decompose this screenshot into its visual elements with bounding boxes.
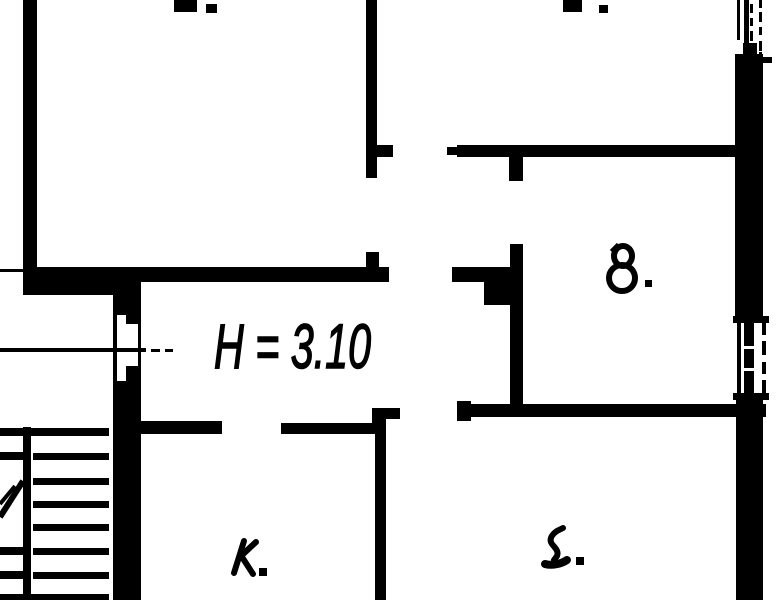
- wall B room stub horizontal: [452, 267, 510, 282]
- wall tick right side: [763, 57, 772, 63]
- window shaft line 1 top right: [737, 0, 740, 40]
- text L label top-right bottom stroke: [563, 0, 582, 12]
- stair tread 6 left: [0, 547, 23, 555]
- wall K S divider top cap: [372, 408, 400, 419]
- wall door jamb tick up at hall wall right end: [366, 252, 379, 268]
- wall B room left vertical: [510, 244, 523, 414]
- wall hall horizontal thick left portion: [23, 267, 138, 295]
- wall hall horizontal main: [23, 267, 389, 282]
- wall tick right on top-left room wall: [377, 145, 393, 157]
- stair stringer vertical: [23, 427, 31, 600]
- wall K top right segment: [281, 423, 373, 434]
- wall top horizontal between L room and B: [457, 145, 738, 157]
- wall door jamb below top wall: [509, 157, 523, 181]
- wall left exterior: [23, 0, 37, 295]
- wall corridor vertical upper: [113, 282, 141, 315]
- stair tread 6 right: [33, 548, 109, 555]
- wall K top left stub: [141, 421, 222, 434]
- wall top horizontal left end dash: [447, 147, 457, 155]
- window right wall right dashed line: [762, 323, 766, 335]
- text L label top-left bottom stroke: [174, 0, 197, 12]
- wall S room top left end cap: [457, 401, 471, 421]
- window entrance door right edge line: [138, 315, 141, 381]
- wire window sill dimension line: [0, 348, 146, 352]
- wall right exterior upper: [735, 54, 763, 317]
- stair tread 4: [33, 501, 109, 508]
- window shaft dashed line: [759, 0, 762, 8]
- window right wall top band: [733, 316, 769, 323]
- stair tread 2 left: [0, 452, 23, 460]
- stair tread 3: [33, 478, 109, 485]
- wall S room top horizontal: [457, 404, 766, 417]
- text L label top-right period: [599, 5, 608, 13]
- stair tread 5: [33, 524, 109, 531]
- text L label top-left period: [206, 4, 217, 13]
- wall B room door hinge blob: [484, 277, 522, 305]
- window right wall middle band: [744, 323, 754, 393]
- stair tread 7 right: [33, 572, 109, 579]
- window entrance door bottom inner block: [126, 366, 141, 381]
- window entrance door top inner block: [126, 314, 141, 324]
- stair tread 2 right: [33, 453, 109, 460]
- wall right exterior upper middle part: [743, 43, 757, 55]
- stair tread 7 left: [0, 571, 23, 579]
- window right wall left line: [737, 323, 741, 393]
- wall corridor vertical lower: [113, 381, 141, 600]
- wire dimension line left of hall wall: [0, 269, 23, 272]
- wall K top right jamb: [372, 415, 386, 434]
- wall K S divider vertical: [375, 408, 386, 600]
- wire dimension line dash 2: [165, 349, 173, 352]
- wall right exterior lower: [736, 400, 763, 600]
- stair tread 1: [0, 428, 109, 436]
- window right wall bottom band: [733, 393, 769, 400]
- window shaft line 3 speckled: [750, 4, 753, 13]
- window shaft line 2 top right: [744, 0, 749, 44]
- stair tread 8: [0, 594, 109, 600]
- wall top-left room right vertical: [366, 0, 377, 178]
- window entrance door left jamb line: [113, 315, 117, 381]
- wire dimension line dash 1: [151, 349, 160, 352]
